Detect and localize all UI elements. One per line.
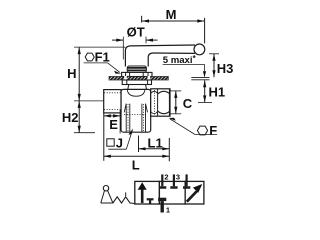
middle box: top blocked port 3 <box>170 174 177 187</box>
svg-text:H: H <box>67 66 76 81</box>
dimension H2 <box>74 101 95 133</box>
svg-text:H1: H1 <box>209 85 226 100</box>
valve symbol boxes <box>135 181 204 204</box>
internal seat channel left <box>124 104 130 133</box>
left box: blocked port T <box>147 199 154 204</box>
dimension H3 <box>209 54 219 78</box>
dimension L1 <box>139 136 170 162</box>
dimension C <box>170 91 181 114</box>
dimension H <box>74 47 125 101</box>
dimension E <box>104 110 120 134</box>
dimension H1 <box>198 80 212 102</box>
svg-text:ØT: ØT <box>127 24 145 39</box>
pneumatic symbol: manual knob <box>103 186 108 191</box>
right box: diagonal flow arrow <box>187 184 203 202</box>
handle ball end <box>194 44 205 55</box>
knurled nut <box>127 66 146 72</box>
svg-text:L1: L1 <box>148 135 163 150</box>
panel max level double line <box>191 78 209 80</box>
svg-text:H2: H2 <box>62 110 79 125</box>
svg-text:3: 3 <box>176 172 180 181</box>
dimension ØT <box>112 37 158 60</box>
svg-text:C: C <box>183 96 193 111</box>
neck boss <box>128 85 147 90</box>
lever legs <box>101 191 113 204</box>
label F1 with hexagon <box>84 49 122 73</box>
middle box: bottom blocked port 1 <box>158 199 166 212</box>
svg-text:F1: F1 <box>95 49 110 64</box>
svg-text:L: L <box>132 158 140 173</box>
valve body <box>121 89 151 132</box>
svg-text:M: M <box>166 7 177 22</box>
stem dome cavity <box>127 89 145 96</box>
handle lever <box>125 45 195 67</box>
svg-text:1: 1 <box>166 205 170 214</box>
lower hex lock nut <box>122 80 151 85</box>
dimension L <box>104 113 170 161</box>
detent zigzag <box>113 197 135 204</box>
ground baseline <box>101 202 113 204</box>
left box: flow arrow up <box>138 182 147 203</box>
dimension M <box>142 16 205 44</box>
middle box: top blocked port 2 <box>159 174 166 187</box>
detent tick <box>125 192 127 196</box>
svg-text:F: F <box>209 123 217 138</box>
label 5 maxi* with leader <box>163 54 206 77</box>
label J with square and leader <box>107 128 133 150</box>
panel (hatched cross-section band) <box>109 76 168 80</box>
svg-text:2: 2 <box>164 172 168 181</box>
upper hex nut <box>122 72 152 76</box>
right box: top blocked port <box>183 174 190 187</box>
svg-text:H3: H3 <box>217 61 234 76</box>
svg-text:J: J <box>116 135 123 150</box>
internal dashed bore lines <box>127 104 129 131</box>
internal seat channel right <box>142 104 148 133</box>
right hex port <box>151 89 170 116</box>
svg-text:E: E <box>109 117 118 132</box>
left male threaded port <box>104 90 121 113</box>
label F with hexagon and leader <box>169 118 218 139</box>
